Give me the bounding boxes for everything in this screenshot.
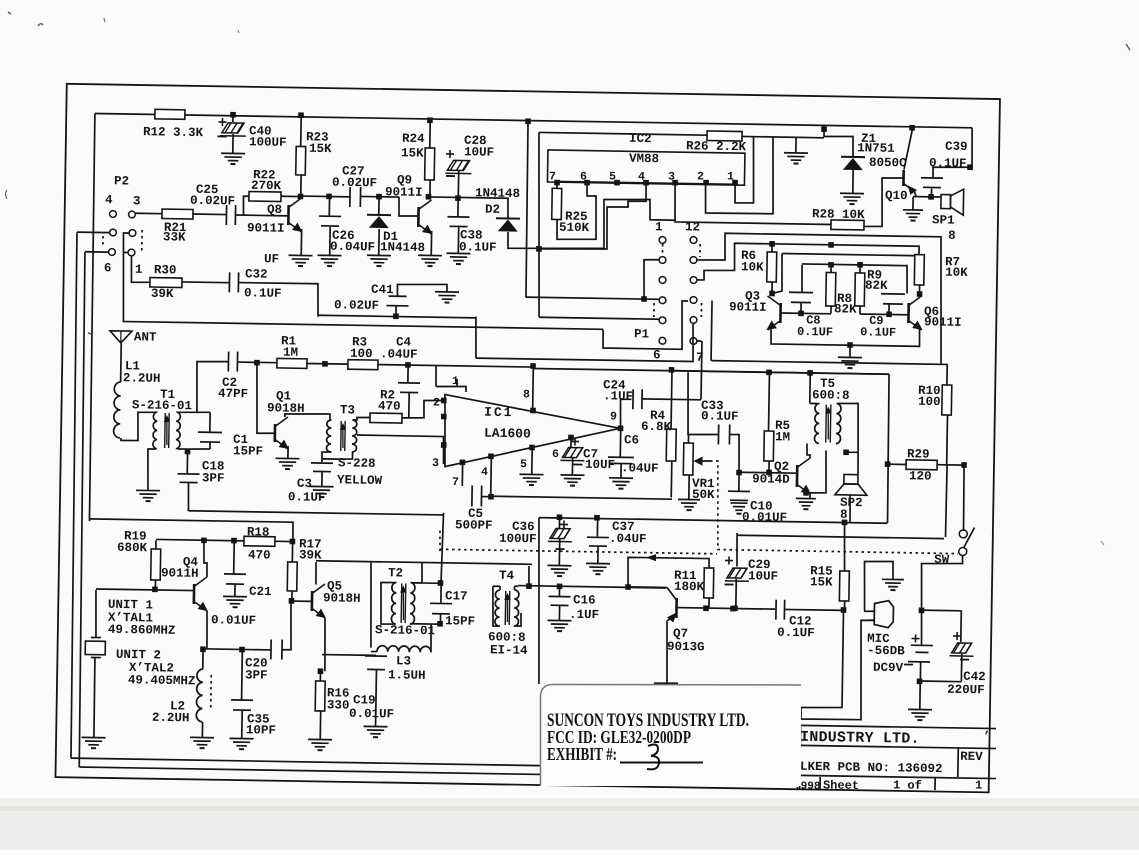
svg-text:7: 7 xyxy=(452,476,459,489)
IC1 pin9 apex xyxy=(618,425,624,431)
diode D2 xyxy=(507,198,510,218)
svg-text:C21: C21 xyxy=(249,585,272,599)
ground C19 xyxy=(364,725,388,727)
svg-text:0.02UF: 0.02UF xyxy=(190,194,235,209)
svg-text:1 of: 1 of xyxy=(893,778,922,792)
ground C35 xyxy=(230,737,254,739)
svg-text:LKER PCB NO: 136092: LKER PCB NO: 136092 xyxy=(800,760,943,776)
ground D1 xyxy=(367,254,391,256)
svg-text:SW: SW xyxy=(934,553,950,567)
svg-text:9014D: 9014D xyxy=(752,472,790,487)
svg-text:82K: 82K xyxy=(834,302,857,316)
resistor R12 xyxy=(155,109,185,119)
wire A from P1 to right xyxy=(695,233,943,364)
svg-text:4: 4 xyxy=(105,193,113,207)
wire Q4 emitter xyxy=(206,611,207,649)
wire L1 to T1 xyxy=(121,412,156,441)
resistor R22 xyxy=(249,192,281,202)
svg-text:P1: P1 xyxy=(634,327,649,341)
wire IC1 bottom loop xyxy=(491,496,672,499)
wire mid bus W-left xyxy=(189,511,444,515)
inductor L1 xyxy=(114,382,121,438)
wire R18 right node xyxy=(275,540,293,542)
svg-text:2.2UH: 2.2UH xyxy=(152,711,190,726)
wire Q3Q6 block top rail xyxy=(704,243,919,284)
svg-text:0.1UF: 0.1UF xyxy=(459,240,497,255)
wire T4 left bottom xyxy=(492,586,500,626)
wire top supply rail xyxy=(95,113,972,127)
wire T5 right to SP2 xyxy=(837,403,859,452)
wire Q5 emitter branch C19 xyxy=(322,653,376,656)
svg-text:9011H: 9011H xyxy=(161,566,199,581)
svg-text:S-216-01: S-216-01 xyxy=(132,398,192,413)
wire W2 drop to W7 xyxy=(475,317,476,359)
wire R22 left leg xyxy=(243,196,249,215)
resistor R30 xyxy=(131,256,150,283)
resistor R23 xyxy=(298,112,304,118)
svg-text:49.405MHZ: 49.405MHZ xyxy=(128,673,196,688)
transistor Q2 xyxy=(796,465,799,487)
svg-text:0.1UF: 0.1UF xyxy=(797,325,833,340)
capacitor C40 xyxy=(230,112,236,118)
wire C32 to bus xyxy=(238,282,319,316)
wire C5 to loop xyxy=(482,496,491,498)
MIC capsule xyxy=(864,610,874,612)
svg-text:8050C: 8050C xyxy=(869,156,907,171)
wire T4 right bottom xyxy=(514,613,521,626)
wire T1 left bottom to ground xyxy=(147,449,156,490)
wire Q1 emitter ground xyxy=(287,446,289,458)
capacitor C32 xyxy=(182,281,229,284)
svg-text:1N4148: 1N4148 xyxy=(380,240,425,255)
svg-text:S-216-01: S-216-01 xyxy=(375,623,435,638)
handwritten 3 xyxy=(647,745,659,770)
svg-text:6.8K: 6.8K xyxy=(641,420,672,434)
wire C25 to Q8 base xyxy=(236,214,289,217)
svg-text:100UF: 100UF xyxy=(499,532,537,547)
resistor R9 xyxy=(859,265,861,273)
IC1 pin1 step xyxy=(456,379,458,387)
svg-text:1: 1 xyxy=(135,263,143,277)
svg-text:DC9V: DC9V xyxy=(873,661,904,675)
svg-text:0.1UF: 0.1UF xyxy=(860,325,896,340)
wire R18 rail xyxy=(156,539,244,540)
potentiometer VR1 xyxy=(683,443,693,475)
svg-text:.1UF: .1UF xyxy=(603,389,633,403)
wire bottom rail to sticker xyxy=(540,757,666,759)
ground VR1 xyxy=(678,498,700,500)
svg-text:9011I: 9011I xyxy=(385,185,423,200)
wire P2 dotted gaps xyxy=(102,236,104,248)
capacitor C41 xyxy=(393,313,399,319)
svg-text:C41: C41 xyxy=(371,283,394,297)
svg-text:0.04UF: 0.04UF xyxy=(330,240,375,255)
ground MIC xyxy=(882,578,904,580)
wire left inner vertical xyxy=(88,113,96,521)
wire block bottom rail xyxy=(771,326,920,347)
exhibit underline xyxy=(620,762,703,764)
svg-text:15K: 15K xyxy=(401,146,424,160)
wire T2 right top up xyxy=(412,563,422,583)
transformer T1 xyxy=(153,412,158,449)
ground C38 xyxy=(446,252,470,254)
wire Q5 to T2 T4 top rail xyxy=(316,561,532,565)
wire Q4 collector xyxy=(203,540,207,577)
wire T2 left stubs xyxy=(380,582,395,624)
wire bottom bus 1 xyxy=(71,758,540,766)
ground Q2 xyxy=(796,497,816,499)
svg-text:IC2: IC2 xyxy=(629,132,652,146)
svg-text:C42: C42 xyxy=(963,670,986,684)
wire Q2 base rail xyxy=(739,471,797,474)
svg-text:0.1UF: 0.1UF xyxy=(701,409,739,424)
transistor Q8 xyxy=(287,205,290,225)
capacitor C6 xyxy=(619,428,621,456)
capacitor C7 electrolytic xyxy=(570,438,572,447)
svg-text:8: 8 xyxy=(948,229,956,243)
transformer T2 xyxy=(391,582,396,624)
IC1 pin8 xyxy=(530,363,536,369)
wire left bus 1 xyxy=(68,232,79,758)
svg-text:.04UF: .04UF xyxy=(609,532,647,547)
svg-text:R24: R24 xyxy=(402,132,425,146)
transistor Q9 xyxy=(417,207,420,227)
wire T1 right top to C2 xyxy=(178,361,229,413)
svg-text:.04UF: .04UF xyxy=(621,461,659,476)
svg-text:8: 8 xyxy=(523,388,530,401)
wire L3 right leg xyxy=(430,624,433,651)
wire P2 pin2 to left bus xyxy=(77,231,109,234)
svg-text:2: 2 xyxy=(433,396,440,409)
svg-text:9011I: 9011I xyxy=(729,300,767,315)
capacitor C39 xyxy=(933,167,970,178)
svg-text:EXHIBIT #:: EXHIBIT #: xyxy=(547,744,617,764)
svg-text:1N751: 1N751 xyxy=(857,141,895,156)
diode D1 xyxy=(378,197,380,214)
transformer T5 xyxy=(809,373,811,404)
svg-text:10K: 10K xyxy=(741,260,764,274)
wire P1 row2L drop xyxy=(647,259,649,261)
resistor R16 xyxy=(315,681,325,711)
svg-text:10UF: 10UF xyxy=(585,458,615,472)
wire left long bottom rail xyxy=(90,519,293,522)
wire D2 to IC2 lower mesh xyxy=(508,197,676,251)
svg-text:330: 330 xyxy=(327,698,350,712)
svg-text:3PF: 3PF xyxy=(202,471,225,485)
ground C10 xyxy=(730,502,747,504)
capacitor C1 xyxy=(187,448,210,451)
wire pin4 left leg xyxy=(539,181,646,250)
svg-text:220UF: 220UF xyxy=(947,683,985,698)
svg-text:1M: 1M xyxy=(775,430,790,444)
wire R10 feed rail xyxy=(710,300,713,360)
resistor R28 xyxy=(831,220,864,230)
ground C7 xyxy=(560,474,584,476)
svg-text:L3: L3 xyxy=(396,654,411,668)
svg-text:INDUSTRY LTD.: INDUSTRY LTD. xyxy=(800,729,920,748)
svg-text:6: 6 xyxy=(104,261,112,275)
exhibit sticker xyxy=(541,685,802,787)
wire pin2 leg xyxy=(705,136,774,214)
svg-text:3PF: 3PF xyxy=(245,668,268,682)
svg-text:P2: P2 xyxy=(114,174,129,188)
IC1 pin5 xyxy=(529,445,535,451)
wire Q6 base link xyxy=(860,313,908,316)
wire battery bottom xyxy=(919,662,921,681)
wire P1 row3R to wireB xyxy=(698,279,705,281)
resistor R24 xyxy=(427,117,433,123)
microphone MIC xyxy=(864,561,894,612)
svg-text:0.1UF: 0.1UF xyxy=(288,490,326,505)
wire C2 to R1 xyxy=(238,361,277,364)
svg-text:1: 1 xyxy=(727,170,734,183)
capacitor C5 xyxy=(471,486,473,507)
wire R22 right to node xyxy=(281,195,301,197)
svg-text:1: 1 xyxy=(452,375,459,388)
capacitor C38 xyxy=(457,198,459,216)
battery DC9V xyxy=(911,644,933,646)
svg-text:7: 7 xyxy=(549,170,556,183)
ground C21 xyxy=(223,595,247,597)
capacitor C33 xyxy=(687,372,720,435)
wire IC2 feed xyxy=(525,122,529,298)
svg-text:R30: R30 xyxy=(154,263,177,277)
resistor R21 xyxy=(136,212,162,214)
svg-text:REV: REV xyxy=(960,750,983,764)
wire R28 left to IC2 pin3 xyxy=(674,183,831,225)
resistor R25 xyxy=(556,183,558,188)
wire R10 bottom long vertical xyxy=(946,465,948,537)
transistor Q3 xyxy=(779,303,782,323)
ground C16 xyxy=(547,619,571,621)
svg-text:’: ’ xyxy=(983,729,990,743)
wire P2 pin3 to left bus xyxy=(85,251,108,253)
svg-text:6: 6 xyxy=(552,448,559,461)
ground Z1 xyxy=(840,192,864,194)
svg-text:1N4148: 1N4148 xyxy=(475,186,520,201)
IC1 pin4 xyxy=(488,453,494,459)
svg-text:ANT: ANT xyxy=(134,330,157,344)
crystal X'TAL xyxy=(95,590,97,638)
wire T4 top feed xyxy=(528,566,531,586)
wire main node to C26/C27 xyxy=(301,195,350,198)
wire Q2 collector to T5 xyxy=(807,443,811,458)
svg-text:2: 2 xyxy=(697,170,704,183)
wire R6 bottom to Q3 collector xyxy=(771,282,773,293)
svg-text:R28 10K: R28 10K xyxy=(812,207,865,222)
wire R29 right node xyxy=(937,464,964,466)
svg-text:0.1UF: 0.1UF xyxy=(777,626,815,641)
transistor Q4 xyxy=(96,589,194,591)
svg-text:15K: 15K xyxy=(810,575,833,589)
inductor L2 xyxy=(202,649,204,669)
op-amp IC1 triangle xyxy=(444,395,621,470)
zener Z1 xyxy=(821,126,827,132)
svg-text:39K: 39K xyxy=(151,287,174,301)
svg-text:15K: 15K xyxy=(309,142,332,156)
wire audio box right edge xyxy=(887,374,890,523)
svg-text:.1UF: .1UF xyxy=(569,608,599,622)
wire Q10 base to R28 xyxy=(864,177,903,227)
wire SW feed xyxy=(963,465,965,531)
svg-text:C19: C19 xyxy=(353,693,376,707)
ground crystal xyxy=(82,736,106,738)
wire C20 to Q5 base xyxy=(282,601,292,650)
svg-text:100UF: 100UF xyxy=(249,135,287,150)
wire to Q9 base xyxy=(399,197,419,217)
capacitor C9 xyxy=(906,265,909,294)
svg-text:100: 100 xyxy=(918,395,941,409)
wire C29 drop xyxy=(736,533,737,567)
svg-text:1.5UH: 1.5UH xyxy=(388,668,426,683)
switch SW xyxy=(959,530,967,538)
wire W5 to P1 row5L xyxy=(539,317,659,319)
svg-text:0.01UF: 0.01UF xyxy=(211,613,256,628)
wire L3 drop xyxy=(370,563,373,648)
wire C12 node down to MIC xyxy=(801,609,874,720)
IC2 pins xyxy=(554,180,560,186)
svg-text:33K: 33K xyxy=(163,230,186,244)
svg-text:680K: 680K xyxy=(117,541,148,555)
speaker SP1 xyxy=(941,195,951,209)
wire Q8 collector xyxy=(300,175,302,197)
svg-text:470: 470 xyxy=(248,548,271,562)
svg-text:9011I: 9011I xyxy=(924,315,962,330)
wire W7 to P1 xyxy=(476,320,694,361)
wire VR1 wiper dotted xyxy=(709,461,960,554)
wire Q1 collector to T3 xyxy=(285,413,330,419)
resistor R15 xyxy=(839,571,849,601)
resistor R5 xyxy=(768,372,771,431)
wire T2 bottom rail to C17 xyxy=(411,623,440,625)
svg-text:10UF: 10UF xyxy=(748,569,778,583)
transistor Q5 xyxy=(292,600,312,602)
wire R26 to Z1 node xyxy=(742,136,824,137)
capacitor C2 xyxy=(227,352,229,372)
wire Q7 emitter xyxy=(666,620,668,683)
ground C26 xyxy=(318,254,342,256)
scan speck marks xyxy=(8,12,11,14)
svg-text:510K: 510K xyxy=(559,221,590,235)
resistor R17 xyxy=(291,541,293,561)
svg-text:9: 9 xyxy=(610,410,617,423)
wire row4R to C24 net xyxy=(700,341,703,399)
svg-text:9013G: 9013G xyxy=(667,640,705,655)
capacitor C37 xyxy=(596,518,598,536)
resistor R6 xyxy=(771,244,773,252)
wire R7 crosslink xyxy=(772,253,783,293)
svg-text:R18: R18 xyxy=(247,525,270,539)
svg-text:C16: C16 xyxy=(573,593,596,607)
wire IC2 pin row xyxy=(557,181,735,184)
transistor Q6 xyxy=(907,303,910,323)
resistor R10 xyxy=(946,364,948,385)
svg-text:15PF: 15PF xyxy=(445,614,475,628)
capacitor C3 xyxy=(311,462,333,464)
wire Q5 emitter xyxy=(324,618,326,671)
wire ANT stem xyxy=(120,343,123,382)
transistor Q10 xyxy=(909,125,915,131)
wire T3 left bottom xyxy=(322,452,332,462)
svg-text:SP1: SP1 xyxy=(932,213,955,227)
svg-text:C39: C39 xyxy=(945,140,968,154)
wire T3 right top to R2 xyxy=(352,417,370,420)
wire main bottom rail C16 Q7 xyxy=(518,586,666,588)
svg-text:T3: T3 xyxy=(340,403,355,417)
svg-text:C6: C6 xyxy=(624,433,639,447)
wire pin1 leg xyxy=(735,137,755,203)
svg-text:180K: 180K xyxy=(674,580,705,594)
capacitor C8 xyxy=(789,291,813,293)
wire Q5 collector xyxy=(315,562,318,584)
wire audio box top xyxy=(671,371,888,375)
IC1 pin7 xyxy=(460,459,466,465)
capacitor C12 xyxy=(775,600,777,620)
svg-text:470: 470 xyxy=(378,399,401,413)
capacitor C36 electrolytic xyxy=(558,518,560,528)
svg-text:10PF: 10PF xyxy=(246,723,276,737)
wire P1 row2L xyxy=(643,259,659,299)
wire main rail IC1 to audio xyxy=(533,368,889,374)
wire supply corner to C39 xyxy=(970,128,973,168)
svg-text:6: 6 xyxy=(653,348,661,362)
capacitor C20 xyxy=(270,640,272,660)
IC1 pin6 xyxy=(568,435,574,441)
capacitor C26 xyxy=(328,197,330,216)
ground L2 xyxy=(190,736,214,738)
ground Q8 xyxy=(289,254,313,256)
resistor R4 xyxy=(669,367,675,373)
ground SP1 xyxy=(912,197,914,209)
capacitor C16 xyxy=(558,586,560,596)
wire R7 bottom to Q6 collector xyxy=(918,285,920,294)
resistor R1 xyxy=(277,358,307,368)
svg-text:120: 120 xyxy=(909,469,932,483)
svg-text:10K: 10K xyxy=(945,266,968,280)
wire Q9 collector node to C28/C38 xyxy=(428,197,507,198)
svg-text:1M: 1M xyxy=(283,346,298,360)
resistor R19 xyxy=(155,540,157,549)
svg-text:LA1600: LA1600 xyxy=(484,426,531,442)
svg-text:C32: C32 xyxy=(245,267,268,281)
wire bottom bus 2 xyxy=(79,767,540,775)
svg-text:2.2UH: 2.2UH xyxy=(123,371,161,386)
speaker SP2 xyxy=(844,474,858,484)
capacitor C35 xyxy=(241,649,244,699)
wire Z1 to ground xyxy=(852,168,854,193)
svg-text:-56DB: -56DB xyxy=(867,644,905,659)
svg-text:C3: C3 xyxy=(297,477,312,491)
svg-text:9018H: 9018H xyxy=(323,591,361,606)
svg-text:0.02UF: 0.02UF xyxy=(334,298,379,313)
wire R1 to R3 xyxy=(307,362,348,365)
capacitors C36 C37 rail xyxy=(536,518,541,684)
capacitor C17 xyxy=(438,580,444,586)
wire SP2 to R15 xyxy=(844,522,846,571)
svg-text:4: 4 xyxy=(638,170,645,183)
capacitor C42 electrolytic xyxy=(960,610,963,642)
svg-text:500PF: 500PF xyxy=(455,518,493,533)
wire C27 to D1 node xyxy=(360,195,398,198)
svg-text:3: 3 xyxy=(432,457,439,470)
svg-text:T2: T2 xyxy=(388,566,403,580)
svg-text:0.01UF: 0.01UF xyxy=(349,707,394,722)
svg-text:50K: 50K xyxy=(692,488,715,502)
svg-text:12: 12 xyxy=(685,220,700,234)
wire Q4 emitter rail xyxy=(203,649,271,650)
wire Q8 emitter to ground xyxy=(300,229,302,255)
svg-text:.04UF: .04UF xyxy=(380,347,418,362)
